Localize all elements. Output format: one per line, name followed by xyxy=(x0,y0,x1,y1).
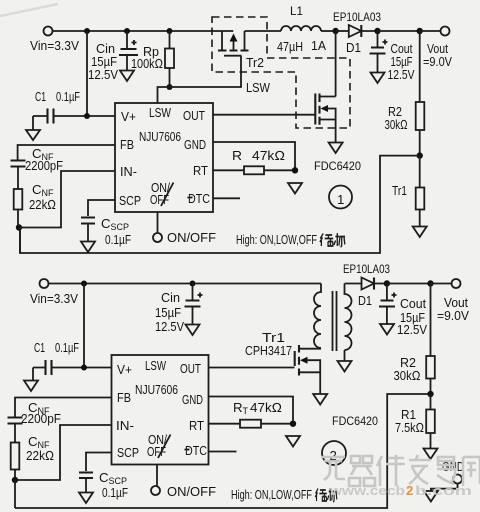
svg-text:SCP: SCP xyxy=(117,445,139,460)
node R2/R1 2 xyxy=(427,391,433,397)
svg-text:1A: 1A xyxy=(311,38,326,53)
svg-text:47kΩ: 47kΩ xyxy=(252,148,285,163)
resistor Rp 100k xyxy=(131,31,174,87)
svg-text:Tr2: Tr2 xyxy=(246,55,264,70)
wire bottom feedback rail (circuit 2) xyxy=(15,394,431,508)
diode D1 (circuit 1) xyxy=(333,10,381,55)
svg-text:EP10LA03: EP10LA03 xyxy=(343,262,390,276)
ground arrow under Cin xyxy=(120,71,134,82)
svg-text:NJU7606: NJU7606 xyxy=(139,129,181,144)
node Cout 2 xyxy=(384,280,390,286)
svg-text:L1: L1 xyxy=(290,4,303,18)
svg-text:V+: V+ xyxy=(117,362,132,377)
node R2 top xyxy=(417,28,423,34)
node R2 top 2 xyxy=(427,280,433,286)
svg-text:LSW: LSW xyxy=(246,80,270,95)
svg-text:GND: GND xyxy=(184,137,206,152)
dashed outline FDC6420 package xyxy=(212,17,350,128)
wire diode to Cout node 2 xyxy=(374,283,387,285)
wire node to bottom rail 2 xyxy=(14,480,16,508)
svg-text:D1: D1 xyxy=(358,293,372,308)
svg-text:OFF: OFF xyxy=(150,192,169,207)
ground arrow under Cout xyxy=(371,73,385,84)
node rail-C1 branch 2 xyxy=(81,281,87,287)
ground arrow under GND terminal xyxy=(424,491,438,502)
wire LSW pin net to Tr2 gate xyxy=(158,56,242,103)
node circled 1 xyxy=(329,186,352,209)
svg-text:R: R xyxy=(232,148,242,163)
node Cin xyxy=(124,28,130,34)
svg-text:22kΩ: 22kΩ xyxy=(26,448,54,463)
svg-text:22kΩ: 22kΩ xyxy=(29,197,56,212)
wire ON/OFF pin 2 xyxy=(156,465,158,486)
node C1/V+ xyxy=(84,113,90,119)
op-amp U1 IC NJU7606 (circuit 1) xyxy=(115,103,213,212)
ground arrow under N-MOSFET 2 xyxy=(313,394,327,405)
node RT/GND 2 xyxy=(290,421,296,427)
svg-text:High: ON,LOW,OFF: High: ON,LOW,OFF xyxy=(236,232,317,247)
wire to R2 node 2 xyxy=(387,283,431,285)
svg-text:Vin=3.3V: Vin=3.3V xyxy=(30,291,78,306)
node LSW net xyxy=(167,84,173,90)
transistor Tr2 (P-MOSFET in FDC6420) xyxy=(218,31,264,70)
capacitor CSCP (circuit 1) xyxy=(81,216,131,247)
svg-text:12.5V: 12.5V xyxy=(397,322,427,337)
node L1/D1 xyxy=(332,28,338,34)
resistor CNF 22k (circuit 2) xyxy=(11,434,54,480)
wire FB pin 2 xyxy=(15,398,112,418)
ground arrow at C1 2 xyxy=(24,381,38,392)
svg-text:Cin: Cin xyxy=(161,290,180,305)
wire to R2 node xyxy=(378,30,420,32)
svg-text:C1: C1 xyxy=(34,340,45,355)
wire feedback net (circuit 1) xyxy=(20,156,420,253)
wire OUT pin to gate 2 xyxy=(209,367,295,369)
watermark www.cecb2b.com xyxy=(329,483,472,498)
node circled 2 xyxy=(322,441,346,465)
ground arrow under CSCP 2 xyxy=(79,493,93,504)
svg-text:IN-: IN- xyxy=(116,418,134,433)
node C1/V+ 2 xyxy=(81,365,87,371)
watermark 元器件交易网 xyxy=(321,455,480,486)
svg-text:OUT: OUT xyxy=(183,108,205,123)
wire SCP pin 2 xyxy=(86,453,112,472)
svg-text:FDC6420: FDC6420 xyxy=(332,414,378,428)
capacitor C1 (circuit 2) xyxy=(33,340,112,381)
svg-text:15µF: 15µF xyxy=(155,305,181,320)
wire OUT pin to gate xyxy=(213,114,315,116)
svg-text:DTC: DTC xyxy=(188,191,210,206)
svg-text:47kΩ: 47kΩ xyxy=(250,400,282,415)
terminal Vout (circuit 2) xyxy=(452,279,461,288)
terminal Vout (circuit 1) xyxy=(441,27,450,36)
capacitor CNF 2200pF (circuit 2) xyxy=(8,400,62,443)
svg-text:ON/OFF: ON/OFF xyxy=(167,230,216,245)
wire IN- pin 2 xyxy=(15,425,112,480)
ground arrow under Tr1 xyxy=(413,227,427,238)
ground arrow at C1 xyxy=(26,130,40,140)
svg-text:100kΩ: 100kΩ xyxy=(131,56,163,71)
capacitor Cin (circuit 2) xyxy=(155,284,203,335)
transformer Tr1 CPH3417 xyxy=(245,284,361,359)
thermistor Tr1 (circuit 1) xyxy=(392,156,424,227)
svg-text:0.1µF: 0.1µF xyxy=(55,340,79,355)
ground arrow under Cin 2 xyxy=(186,325,200,336)
op-amp U2 IC NJU7606 (circuit 2) xyxy=(112,355,209,465)
terminal Vin (circuit 2) xyxy=(40,279,49,288)
svg-text:IN-: IN- xyxy=(120,164,137,179)
CJK 待机 (circuit 2) xyxy=(315,488,337,502)
wire rail to L1 xyxy=(245,30,282,32)
ground arrow under CSCP xyxy=(81,242,95,253)
ground arrow under secondary xyxy=(338,350,352,372)
transistor N-MOSFET (FDC6420 circuit 2) xyxy=(295,345,321,394)
svg-text:NJU7606: NJU7606 xyxy=(135,382,178,397)
resistor R 47k (circuit 1) xyxy=(232,148,295,174)
svg-text:0.1µF: 0.1µF xyxy=(102,485,128,500)
capacitor Cout (circuit 1) xyxy=(370,31,415,82)
svg-text:2200pF: 2200pF xyxy=(21,411,61,426)
wire to Vout terminal 2 xyxy=(431,283,452,285)
svg-text:LSW: LSW xyxy=(149,105,171,120)
wire node to bottom rail xyxy=(19,228,21,254)
ground arrow under N-MOSFET xyxy=(329,143,343,154)
node IN-/FB net 2 xyxy=(12,477,18,483)
wire diode to Cout node xyxy=(361,30,377,32)
svg-text:CPH3417: CPH3417 xyxy=(245,343,292,358)
node Cin 2 xyxy=(190,281,196,287)
wire node to diode xyxy=(336,30,349,32)
svg-text:12.5V: 12.5V xyxy=(155,319,184,334)
resistor CNF 22k xyxy=(14,182,56,228)
wire GND pin 2 xyxy=(209,397,294,424)
wire down to C1 line 2 xyxy=(83,284,85,368)
wire to Vout terminal xyxy=(420,30,441,32)
ground arrow RT xyxy=(288,183,302,194)
capacitor Cin xyxy=(88,31,138,82)
svg-text:ON/OFF: ON/OFF xyxy=(167,484,216,499)
svg-text:7.5kΩ: 7.5kΩ xyxy=(395,420,424,435)
svg-text:C1: C1 xyxy=(35,89,46,104)
svg-text:OFF: OFF xyxy=(147,444,166,459)
svg-text:V+: V+ xyxy=(121,109,136,124)
svg-text:1: 1 xyxy=(337,192,344,207)
node Cout xyxy=(374,28,380,34)
terminal Vin (circuit 1) xyxy=(44,27,53,36)
capacitor CNF 2200pF xyxy=(11,146,64,189)
wire GND pin xyxy=(213,142,295,170)
svg-text:12.5V: 12.5V xyxy=(388,67,415,82)
svg-text:=9.0V: =9.0V xyxy=(423,54,452,69)
wire RT pin xyxy=(213,169,244,171)
svg-text:High: ON,LOW,OFF: High: ON,LOW,OFF xyxy=(231,487,312,502)
svg-text:12.5V: 12.5V xyxy=(88,67,118,82)
svg-text:FB: FB xyxy=(117,390,131,405)
svg-text:0.1µF: 0.1µF xyxy=(56,89,80,104)
resistor R2 (circuit 2) xyxy=(394,284,435,395)
inductor L1 xyxy=(277,4,336,54)
node RT/GND xyxy=(292,167,298,173)
svg-text:FDC6420: FDC6420 xyxy=(314,159,361,173)
wire ON/OFF pin xyxy=(157,212,159,233)
resistor R2 (circuit 1) xyxy=(385,31,425,156)
svg-text:LSW: LSW xyxy=(145,358,166,373)
svg-text:Vin=3.3V: Vin=3.3V xyxy=(30,38,79,53)
CJK 待机 (circuit 1) xyxy=(320,233,345,247)
svg-text:FB: FB xyxy=(120,137,134,152)
capacitor Cout (circuit 2) xyxy=(379,284,427,338)
capacitor CSCP (circuit 2) xyxy=(79,470,128,500)
node Rp top xyxy=(167,28,173,34)
svg-text:0.1µF: 0.1µF xyxy=(105,232,131,247)
svg-text:b.com: b.com xyxy=(415,483,472,498)
wire FB pin xyxy=(18,145,115,160)
wire DTC stub xyxy=(213,197,240,199)
wire SCP pin xyxy=(88,200,115,216)
svg-text:SCP: SCP xyxy=(119,193,141,208)
svg-text:30kΩ: 30kΩ xyxy=(385,117,408,132)
terminal GND xyxy=(431,459,464,491)
svg-text:D1: D1 xyxy=(346,40,361,55)
capacitor C1 (circuit 1) xyxy=(33,89,115,130)
svg-text:2200pF: 2200pF xyxy=(25,158,63,173)
wire Vin rail (circuit 2) xyxy=(49,283,322,285)
ground arrow under R1 xyxy=(424,449,438,460)
wire IN- pin xyxy=(19,171,115,228)
diode D1 (circuit 2) xyxy=(343,262,390,308)
ground arrow RT 2 xyxy=(286,436,300,447)
ground arrow under Cout 2 xyxy=(380,324,394,335)
transistor N-MOSFET lower (FDC6420 circuit 1) xyxy=(315,31,335,142)
node rail-C1 branch xyxy=(84,28,90,34)
svg-text:RT: RT xyxy=(193,163,208,178)
terminal ON/OFF (circuit 1) xyxy=(153,233,162,242)
svg-text:=9.0V: =9.0V xyxy=(437,308,469,323)
terminal ON/OFF (circuit 2) xyxy=(151,486,160,495)
svg-text:EP10LA03: EP10LA03 xyxy=(333,10,381,24)
svg-text:OUT: OUT xyxy=(180,361,201,376)
node IN-/FB net xyxy=(16,224,22,230)
resistor RT 47k (circuit 2) xyxy=(233,400,293,428)
wire Vin rail xyxy=(53,30,234,32)
svg-text:www.cecb: www.cecb xyxy=(329,483,405,498)
wire DTC stub 2 xyxy=(209,451,237,453)
resistor R1 (circuit 2) xyxy=(395,394,435,449)
svg-text:Cout: Cout xyxy=(400,296,426,311)
node R2/Tr1 xyxy=(417,152,423,158)
svg-text:Tr1: Tr1 xyxy=(392,183,407,198)
svg-text:RT: RT xyxy=(189,418,204,433)
wire RT pin 2 xyxy=(209,423,241,425)
svg-text:47µH: 47µH xyxy=(277,39,303,54)
svg-text:30kΩ: 30kΩ xyxy=(394,368,421,383)
svg-text:2: 2 xyxy=(406,483,413,498)
svg-text:DTC: DTC xyxy=(185,443,207,458)
wire down to C1 line xyxy=(86,31,88,116)
svg-text:GND: GND xyxy=(182,392,203,407)
